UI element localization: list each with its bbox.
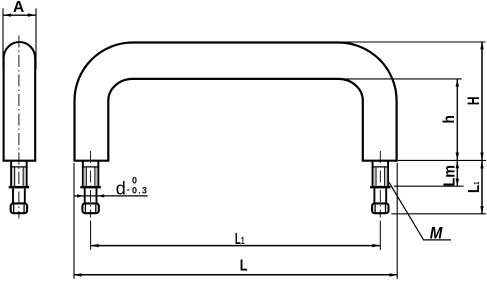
- right stud: [370, 161, 390, 214]
- dimension h line: [456, 79, 458, 160]
- svg-text:L1: L1: [235, 231, 245, 248]
- svg-text:Lm: Lm: [441, 165, 458, 187]
- dimension A arrow left: [3, 13, 11, 16]
- side view centerline: [18, 36, 20, 219]
- dimension h arrow bottom: [456, 153, 459, 161]
- dimension d arrow right: [98, 194, 105, 197]
- leader line M: [389, 182, 451, 240]
- svg-text:L: L: [240, 258, 248, 275]
- extension line thread end: [394, 185, 464, 187]
- dimension d leader line: [75, 195, 148, 197]
- extension line leg bottom: [398, 159, 486, 161]
- right stud centerline extension to L1: [379, 221, 381, 250]
- dimension H arrow top: [480, 42, 483, 50]
- left stud centerline extension to L1: [90, 221, 92, 250]
- front view outer outline: [75, 43, 397, 161]
- dimension L1 line: [91, 245, 381, 247]
- left leg bottom line: [73, 160, 109, 162]
- svg-text:H: H: [465, 96, 483, 105]
- side view body outline: [4, 42, 36, 160]
- dimension L1 vertical arrow bottom: [480, 206, 483, 214]
- dimension L1 arrow right: [372, 244, 380, 247]
- left stud centerline: [90, 151, 92, 218]
- extension line handle inner top: [338, 78, 461, 80]
- dimension L arrow right: [390, 273, 398, 276]
- dimension A arrow right: [28, 13, 36, 16]
- dimension L1 arrow left: [91, 244, 99, 247]
- dimension A line: [3, 14, 36, 16]
- dimension Lm line: [456, 161, 458, 187]
- extension line stud tip: [391, 213, 486, 215]
- dimension L arrow left: [73, 273, 81, 276]
- dimension Lm arrow bottom: [456, 179, 459, 187]
- dimension L line: [73, 274, 397, 276]
- dimension L1 vertical line: [481, 161, 483, 214]
- side view body bottom line: [3, 160, 37, 162]
- dimension H arrow bottom: [480, 153, 483, 161]
- dimension A extension line left: [2, 8, 4, 70]
- svg-text:L1: L1: [466, 181, 483, 193]
- svg-text:M: M: [430, 225, 444, 243]
- dimension L1 vertical arrow top: [480, 161, 483, 169]
- right stud centerline: [379, 151, 381, 218]
- dimension A extension line right: [35, 8, 37, 70]
- extension line right leg outer: [396, 163, 398, 279]
- front view inner outline: [108, 79, 363, 160]
- side view stud: [9, 161, 29, 214]
- svg-text:0: 0: [132, 175, 137, 185]
- extension line left leg outer: [73, 163, 75, 279]
- dimension d arrow left: [77, 194, 84, 197]
- svg-text:0.3: 0.3: [132, 186, 148, 196]
- dimension Lm arrow top: [456, 161, 459, 169]
- left stud: [80, 161, 100, 214]
- dimension H line: [481, 42, 483, 161]
- svg-text:d: d: [116, 178, 126, 198]
- right leg bottom line: [362, 160, 398, 162]
- extension line handle top: [338, 41, 485, 43]
- svg-text:-: -: [127, 185, 130, 195]
- dimension h arrow top: [456, 79, 459, 87]
- svg-text:A: A: [13, 0, 24, 16]
- svg-text:h: h: [441, 115, 458, 123]
